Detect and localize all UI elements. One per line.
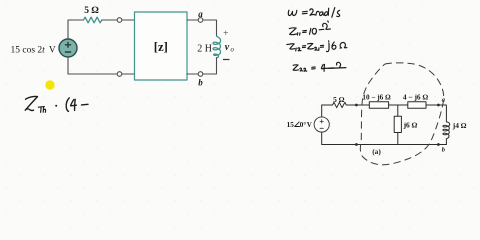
two-port box [z]	[135, 12, 188, 80]
hw 4	[71, 100, 77, 106]
svg-text:a: a	[198, 9, 203, 19]
svg-text:5 Ω: 5 Ω	[84, 6, 99, 16]
box resistor 4-j6	[408, 102, 426, 109]
wire resistor to box1	[346, 104, 369, 106]
hw equals 1	[302, 11, 307, 14]
svg-text:j6 Ω: j6 Ω	[403, 121, 418, 130]
box resistor 10-j6	[369, 102, 388, 109]
svg-text:10 − j6 Ω: 10 − j6 Ω	[362, 94, 391, 102]
hw equals 2	[303, 31, 307, 33]
hw equals 3	[302, 46, 305, 48]
hw equals 4	[320, 45, 323, 47]
svg-text:5 Ω: 5 Ω	[333, 95, 345, 104]
hw 4 crossed	[321, 65, 325, 69]
hw ohm raised	[319, 28, 324, 31]
svg-text:(a): (a)	[372, 147, 381, 156]
terminal circle top-left port	[117, 18, 122, 23]
svg-text:+: +	[223, 29, 228, 39]
svg-text:[z]: [z]	[154, 40, 168, 54]
source plus mark	[65, 42, 70, 47]
wire inductor to terminal b	[187, 58, 217, 74]
source minus	[320, 127, 323, 129]
hw 2rad/s	[310, 9, 316, 15]
box resistor j6 (vertical)	[394, 116, 401, 132]
hw 10	[310, 29, 311, 35]
wire top-left: source top to resistor	[68, 20, 84, 40]
hw paren (	[66, 98, 69, 112]
hw z22	[293, 65, 298, 70]
voltage source Vs 15cos2t	[59, 39, 77, 57]
resistor 5ohm zigzag (teal)	[84, 17, 102, 23]
node b dot	[437, 143, 440, 146]
source minus mark	[65, 51, 70, 53]
wire box2 to corner a	[426, 105, 446, 122]
junction dot top-left port	[355, 104, 358, 107]
wire inductor bottom	[445, 139, 447, 145]
wire source top	[322, 105, 333, 117]
wire resistor to box	[102, 19, 135, 21]
svg-text:15 cos 2t V: 15 cos 2t V	[11, 45, 56, 55]
wire bottom-left	[68, 57, 135, 74]
svg-text:2 H: 2 H	[197, 43, 212, 54]
svg-text:v: v	[225, 42, 230, 53]
source plus	[320, 120, 323, 123]
wire box to terminal a	[187, 20, 217, 36]
wire box1 to box2	[389, 104, 408, 106]
resistor 5ohm zigzag	[333, 102, 347, 107]
inductor j4 coil	[443, 122, 450, 139]
svg-text:0° V: 0° V	[300, 121, 313, 129]
bottom wire	[322, 132, 447, 144]
middle branch wire lower	[397, 133, 399, 145]
hw ohm 4 with underline	[337, 62, 341, 68]
angle symbol	[295, 122, 300, 127]
junction dot bottom-left port	[355, 143, 358, 146]
svg-text:15: 15	[287, 121, 295, 129]
svg-text:4 − j6 Ω: 4 − j6 Ω	[403, 93, 429, 102]
middle branch wire	[397, 105, 399, 116]
node a dot	[437, 104, 440, 107]
hw equals 5	[312, 67, 316, 69]
inductor 2H coil (teal)	[213, 36, 221, 58]
dashed hand-drawn ellipse around network	[360, 63, 443, 165]
terminal circle bottom-left port	[117, 72, 122, 77]
hw minus	[82, 103, 89, 106]
vo minus label	[224, 59, 230, 61]
hw Th subscript	[38, 107, 44, 113]
terminal a circle	[198, 18, 203, 23]
hw z12	[287, 43, 290, 45]
hw z21	[308, 43, 314, 49]
yellow cursor dot	[45, 80, 54, 89]
hw ZTh big	[25, 96, 37, 110]
svg-text:b: b	[198, 78, 203, 88]
hw j6	[327, 43, 330, 52]
hw dot	[55, 105, 57, 107]
svg-text:j4 Ω: j4 Ω	[452, 121, 467, 130]
source 15angle0 circle	[314, 117, 329, 132]
hw ohm 3	[340, 42, 347, 48]
svg-text:o: o	[231, 47, 235, 54]
hw omega	[288, 10, 297, 15]
hw Z11	[289, 28, 296, 35]
terminal b circle	[198, 72, 203, 77]
